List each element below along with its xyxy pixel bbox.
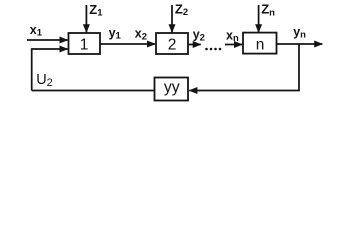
svg-text:y2: y2	[193, 28, 205, 44]
svg-text:xn: xn	[226, 28, 239, 44]
block n	[243, 33, 277, 54]
svg-text:Z1: Z1	[89, 2, 103, 19]
svg-text:n: n	[256, 36, 265, 53]
svg-text:Z2: Z2	[175, 1, 188, 18]
control unit UU	[155, 78, 189, 101]
wire control unit output left	[32, 90, 155, 92]
block 2	[156, 33, 188, 54]
wire Z2 arrow	[171, 5, 173, 32]
wire yn output	[277, 43, 323, 45]
svg-text:1: 1	[80, 37, 89, 54]
svg-text:y1: y1	[109, 26, 122, 42]
wire Zn arrow	[258, 5, 260, 32]
wire y2 out of block2	[188, 44, 201, 46]
svg-text:x2: x2	[135, 27, 147, 43]
dots ellipsis	[205, 48, 208, 51]
wire x1 input	[27, 39, 68, 41]
svg-text:2: 2	[168, 37, 177, 54]
block 1	[69, 33, 101, 54]
wire Z1 arrow	[85, 5, 87, 32]
svg-text:U2: U2	[36, 72, 53, 89]
svg-text:yn: yn	[293, 25, 306, 41]
wire xn into block n	[225, 44, 242, 46]
wire U2 into block 1	[32, 49, 68, 91]
wire block1 to block2	[100, 43, 155, 45]
svg-text:уу: уу	[164, 79, 180, 96]
svg-text:x1: x1	[30, 23, 43, 39]
svg-text:Zn: Zn	[261, 2, 275, 19]
wire feedback drop right	[189, 44, 299, 91]
